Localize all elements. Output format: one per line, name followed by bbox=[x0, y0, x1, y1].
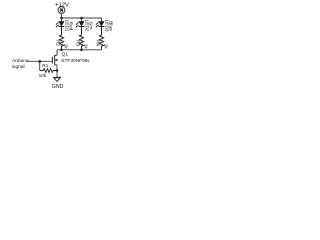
svg-text:R3: R3 bbox=[75, 40, 80, 46]
+12V label bbox=[55, 2, 69, 8]
LED LED1 (Red) bbox=[56, 18, 65, 35]
svg-text:1k: 1k bbox=[84, 44, 89, 50]
ground bbox=[53, 77, 60, 81]
svg-text:+12V: +12V bbox=[55, 2, 69, 8]
LED LED3 (Blue) bbox=[96, 21, 105, 35]
wire bottom bus bbox=[57, 49, 102, 51]
node top bus / LED2 junction bbox=[80, 17, 83, 20]
svg-text:Red: Red bbox=[68, 22, 74, 31]
wire source to ground bbox=[56, 71, 58, 78]
svg-text:R4: R4 bbox=[95, 40, 100, 46]
LED LED2 (Grn) bbox=[76, 18, 85, 35]
svg-text:Q1: Q1 bbox=[62, 52, 69, 58]
wire top bus bbox=[62, 17, 102, 19]
svg-text:Arduino: Arduino bbox=[12, 58, 29, 64]
svg-text:signal: signal bbox=[12, 64, 25, 70]
svg-text:R2: R2 bbox=[55, 40, 60, 46]
svg-text:1k: 1k bbox=[64, 44, 69, 50]
label Arduino signal bbox=[12, 58, 29, 70]
node bottom bus / R2 junction bbox=[60, 49, 63, 52]
wire drain bbox=[55, 50, 57, 56]
node gate / R1 junction bbox=[38, 60, 41, 63]
wire power stem bbox=[61, 13, 63, 18]
resistor R1 bbox=[40, 69, 57, 73]
wire R1 drop bbox=[39, 61, 41, 70]
wire bus corner to LED3 bbox=[101, 18, 103, 22]
svg-text:STF30NF06L: STF30NF06L bbox=[61, 58, 90, 64]
node top bus / LED1 junction bbox=[60, 17, 63, 20]
power symbol +12V bbox=[58, 7, 65, 14]
resistor R3 bbox=[79, 27, 83, 50]
svg-text:1k: 1k bbox=[104, 44, 109, 50]
wire gate (Arduino signal) bbox=[27, 60, 52, 62]
node source / R1 junction bbox=[56, 69, 59, 72]
resistor R4 bbox=[99, 27, 103, 50]
transistor Q1 bbox=[52, 55, 57, 71]
svg-text:Grn: Grn bbox=[88, 22, 94, 30]
svg-text:Blue: Blue bbox=[108, 21, 114, 31]
svg-text:R1: R1 bbox=[42, 63, 48, 69]
svg-text:10k: 10k bbox=[39, 73, 47, 79]
resistor R2 bbox=[59, 27, 63, 50]
node bottom bus / R3 junction bbox=[80, 49, 83, 52]
svg-text:GND: GND bbox=[52, 84, 64, 90]
